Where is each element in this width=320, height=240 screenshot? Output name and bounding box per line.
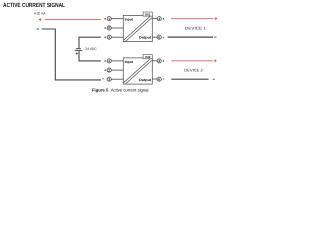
IN1 terminal 6 xyxy=(152,35,164,39)
svg-text:4: 4 xyxy=(158,17,160,21)
svg-text:2: 2 xyxy=(108,26,110,30)
wire source minus to IN2 terminal 3 xyxy=(42,29,102,80)
tag IN 2 xyxy=(143,55,152,59)
svg-text:Output: Output xyxy=(139,78,152,82)
svg-text:IN1: IN1 xyxy=(145,12,151,16)
svg-text:24 VDC: 24 VDC xyxy=(85,47,97,51)
device 1 plus marker xyxy=(215,17,218,20)
source plus marker xyxy=(39,18,42,21)
device 2 minus marker xyxy=(213,78,215,80)
svg-text:3: 3 xyxy=(108,35,110,39)
converter block IN1 xyxy=(123,15,152,41)
device 2 plus marker xyxy=(214,59,217,62)
svg-text:Input: Input xyxy=(125,60,134,64)
svg-text:3: 3 xyxy=(108,77,110,81)
svg-text:Input: Input xyxy=(125,17,134,21)
svg-text:DEVICE 2: DEVICE 2 xyxy=(184,67,203,72)
battery 24 VDC xyxy=(74,49,82,51)
svg-text:DEVICE 1: DEVICE 1 xyxy=(185,26,206,31)
svg-text:4: 4 xyxy=(158,59,160,63)
wire IN2 output minus to device 2 xyxy=(171,78,208,80)
IN2 terminal 3 xyxy=(102,77,123,81)
wire IN1 output plus to device 1 xyxy=(171,18,213,20)
svg-text:1: 1 xyxy=(108,17,110,21)
svg-text:4-20 mA: 4-20 mA xyxy=(34,12,46,16)
svg-text:1: 1 xyxy=(108,59,110,63)
IN2 terminal 4 xyxy=(152,59,164,63)
svg-text:Figure 5 Active current signal: Figure 5 Active current signal xyxy=(92,88,149,93)
IN2 terminal 1 xyxy=(104,59,123,63)
svg-text:6: 6 xyxy=(158,77,160,81)
converter block IN2 xyxy=(123,58,152,84)
svg-text:Output: Output xyxy=(139,36,152,40)
IN1 terminal 3 xyxy=(104,35,123,39)
svg-text:6: 6 xyxy=(158,35,160,39)
IN1 terminal 4 xyxy=(152,17,164,21)
source minus marker xyxy=(37,28,39,30)
battery plus marker xyxy=(76,52,78,54)
svg-text:ACTIVE CURRENT SIGNAL: ACTIVE CURRENT SIGNAL xyxy=(3,2,65,9)
wire battery to IN2 terminal 1 xyxy=(79,51,101,61)
wire IN1 terminal 3 to battery xyxy=(79,37,101,48)
IN1 terminal 1 xyxy=(104,17,123,21)
IN1 terminal 2 xyxy=(104,26,123,30)
wire source plus to IN1 terminal 1 xyxy=(45,19,101,21)
IN2 terminal 2 xyxy=(104,68,123,72)
wire IN2 output plus to device 2 xyxy=(171,60,212,62)
svg-text:2: 2 xyxy=(108,68,110,72)
device 1 minus marker xyxy=(214,36,216,38)
wire IN1 output minus to device 1 xyxy=(168,36,213,38)
svg-text:IN2: IN2 xyxy=(145,55,151,59)
tag IN 1 xyxy=(143,12,152,16)
IN2 terminal 6 xyxy=(152,77,164,81)
